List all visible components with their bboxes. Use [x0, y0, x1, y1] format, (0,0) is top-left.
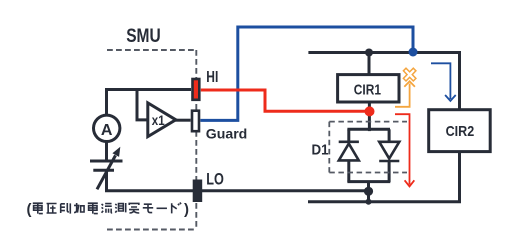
- junction dot: bottom stub node (black small): [366, 199, 372, 205]
- junction dot: top node (black): [365, 49, 373, 57]
- terminal HI: [193, 79, 200, 100]
- svg-text:CIR2: CIR2: [446, 123, 475, 140]
- op-amp buffer x1: [148, 103, 176, 137]
- svg-text:SMU: SMU: [126, 26, 161, 47]
- annotation: red current arrow down: [395, 114, 414, 186]
- wire: diode top rail: [347, 128, 390, 131]
- wire: branch down to buffer input: [137, 90, 149, 120]
- wire: CIR1 bottom to diode pair top node: [368, 102, 371, 131]
- SMU enclosure dashed box: [107, 50, 196, 230]
- terminal Guard: [192, 111, 199, 132]
- wire: diode bottom to LO wire and lower stub: [367, 182, 370, 202]
- svg-text:Guard: Guard: [206, 126, 248, 142]
- wire: right diode top lead: [388, 129, 391, 142]
- wire: left diode top lead: [347, 129, 350, 141]
- svg-text:(: (: [27, 201, 32, 218]
- terminal LO: [193, 180, 202, 202]
- svg-text:CIR1: CIR1: [354, 81, 381, 98]
- junction dot: HI node (blue): [409, 48, 418, 57]
- svg-text:x1: x1: [152, 112, 165, 128]
- blue wire: Guard to top rail and down to HI node: [200, 27, 413, 120]
- svg-text:A: A: [101, 122, 113, 139]
- diode D1a (conducting up): [339, 142, 359, 161]
- variable voltage source V1: [90, 147, 123, 190]
- annotation: orange blocked-path X: [403, 68, 416, 81]
- annotation: orange arrow up: [395, 81, 415, 107]
- diode D1b (conducting down): [379, 142, 399, 161]
- wire: buffer output to Guard: [175, 119, 191, 122]
- wire: ammeter bottom to source: [105, 141, 108, 161]
- wire: LO terminal to bottom junction: [202, 189, 369, 192]
- annotation: blue current arrow into CIR2: [431, 63, 456, 101]
- ammeter A1: [94, 115, 120, 141]
- wire: diode bottom rail: [347, 180, 390, 183]
- red wire: HI to diode top node: [201, 90, 366, 111]
- label (voltage-source / current-measure mode) pseudo-CJK: [27, 201, 190, 218]
- junction dot: LO node (black large): [364, 187, 373, 196]
- wire: ammeter top to HI terminal: [107, 90, 192, 117]
- wire: DUT loop top stub, right side and bottom stub: [308, 53, 460, 202]
- svg-text:HI: HI: [206, 69, 218, 86]
- svg-text:): ): [184, 201, 189, 218]
- box CIR2: [429, 110, 491, 152]
- D1 dashed box: [329, 122, 407, 173]
- wire: source bottom to LO terminal: [107, 170, 194, 190]
- wire: left diode bottom lead: [347, 160, 350, 182]
- svg-text:LO: LO: [206, 171, 224, 189]
- wire: CIR1 top connection: [368, 51, 371, 75]
- svg-text:D1: D1: [312, 142, 329, 159]
- box CIR1: [338, 75, 399, 102]
- junction dot: diode top node (red): [365, 106, 375, 116]
- wire: right diode bottom lead: [388, 161, 391, 183]
